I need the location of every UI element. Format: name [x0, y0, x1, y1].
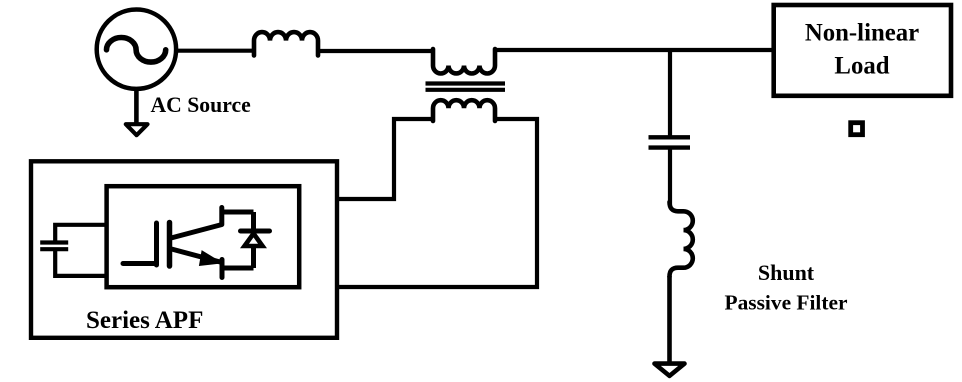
svg-text:Shunt: Shunt: [758, 260, 815, 285]
Series APF outer box: [31, 161, 337, 337]
ground symbol under AC source: [126, 124, 148, 135]
wire collector to diode top: [222, 210, 254, 215]
svg-text:Load: Load: [834, 53, 889, 80]
IGBT Q1 gate lead: [123, 261, 157, 266]
diode D1 cathode bar: [241, 229, 270, 234]
IGBT Q1 body bar: [167, 223, 173, 267]
capacitor C1 wire top: [55, 225, 106, 244]
top wire from transformer to Non-linear Load: [495, 48, 773, 52]
wire shunt inductor to ground: [667, 276, 672, 364]
Non-linear Load box: [774, 5, 951, 96]
wire emitter to diode bottom: [222, 266, 254, 271]
inverter inner box: [107, 186, 300, 287]
capacitor C1 plate bottom: [40, 247, 68, 251]
svg-text:Passive Filter: Passive Filter: [725, 290, 848, 314]
IGBT Q1 gate bar: [154, 223, 159, 265]
IGBT emitter stub: [220, 260, 225, 278]
wire from AC source to series inductor: [175, 49, 255, 53]
ground symbol shunt filter: [655, 364, 685, 376]
IGBT collector stub: [219, 208, 224, 225]
wire from inductor to transformer primary: [318, 49, 435, 53]
svg-text:Series APF: Series APF: [86, 307, 203, 334]
IGBT emitter arrowhead: [200, 251, 221, 265]
transformer T1 secondary winding: [433, 100, 495, 121]
capacitor C2 (shunt) plate bottom: [649, 145, 691, 149]
svg-text:Non-linear: Non-linear: [805, 20, 919, 47]
svg-text:AC Source: AC Source: [151, 93, 252, 117]
diode D1 top lead: [251, 212, 256, 231]
inductor L2 (shunt): [670, 202, 693, 277]
IGBT emitter diagonal: [172, 249, 223, 263]
inductor L1 (series): [254, 32, 318, 55]
shunt branch wire from top wire to capacitor: [668, 50, 672, 137]
AC source circle V1: [97, 10, 176, 89]
wire capacitor to shunt inductor: [668, 148, 672, 205]
transformer core line upper: [426, 81, 506, 85]
node square below load box: [851, 123, 863, 135]
sine wave inside AC source: [107, 38, 166, 63]
capacitor C1 plate top: [40, 240, 68, 244]
transformer core line lower: [426, 88, 506, 92]
capacitor C1 wire bottom: [55, 248, 106, 276]
transformer T1 primary winding: [433, 49, 495, 74]
wire secondary right lead to Series APF box: [339, 119, 537, 287]
capacitor C2 (shunt) plate top: [649, 135, 691, 139]
diode D1 triangle: [245, 234, 263, 247]
wire secondary left lead to Series APF box: [339, 119, 433, 199]
diode D1 bottom lead: [251, 246, 256, 268]
wire AC source bottom to ground: [134, 89, 139, 124]
IGBT collector diagonal: [171, 225, 222, 239]
